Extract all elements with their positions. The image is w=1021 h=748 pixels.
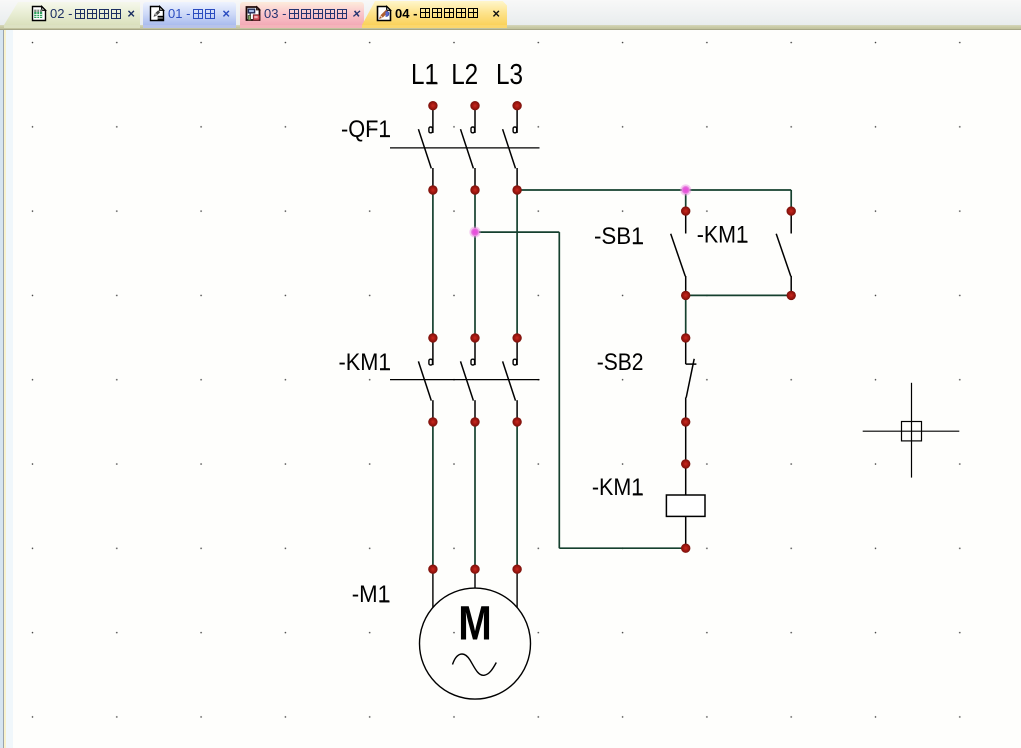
SB1 blade xyxy=(671,234,686,276)
wire W: KM1 to M1 xyxy=(516,422,518,569)
M1 lead U xyxy=(432,569,434,607)
tab: 03 - wiring block diagram xyxy=(240,2,364,25)
QF1 pole 3 blade xyxy=(503,129,516,168)
KM1 pole 3 top lead xyxy=(516,338,518,365)
junction dot: SB1 pin 2 xyxy=(681,291,690,300)
junction dot: QF1 L1 out xyxy=(428,185,437,194)
svg-text:-KM1: -KM1 xyxy=(697,222,748,249)
svg-text:-SB2: -SB2 xyxy=(597,349,644,376)
tab: 04 - electrical schematic (active) xyxy=(362,1,507,25)
svg-text:L3: L3 xyxy=(496,59,523,91)
wire return wire horizontal xyxy=(559,547,685,549)
M1 lead V xyxy=(474,569,476,588)
KM1 pole 1 top lead xyxy=(432,338,434,365)
wire L1: QF1 to KM1 xyxy=(432,190,434,338)
junction dot: QF1 L3 in xyxy=(512,101,521,110)
hot-grip node: L2 return tap xyxy=(469,227,480,238)
junction dot: QF1 L2 in xyxy=(470,101,479,110)
svg-text:L2: L2 xyxy=(451,59,478,91)
junction dot: KM1 L2 in xyxy=(470,333,479,342)
junction dot: KM1 aux pin 1 xyxy=(787,206,796,215)
KM1 coil body xyxy=(666,495,705,516)
QF1 pole 3 bottom lead xyxy=(516,168,518,190)
KM1 pole 3 blade xyxy=(503,361,516,400)
hot-grip node: control feed tap xyxy=(680,184,691,195)
wire SB1/KM1-aux bottom link xyxy=(686,294,792,296)
KM1 pole 1 bottom lead xyxy=(432,400,434,422)
SB2 top lead xyxy=(685,338,687,364)
junction dot: QF1 L2 out xyxy=(470,185,479,194)
SB2 actuator bar xyxy=(686,363,697,365)
KM1 aux top lead xyxy=(790,211,792,233)
M1 lead W xyxy=(516,569,518,607)
svg-text:-QF1: -QF1 xyxy=(341,116,391,143)
wire neutral tap horizontal xyxy=(475,231,559,233)
wire return wire vertical xyxy=(558,232,560,548)
KM1 pole 3 bottom lead xyxy=(516,400,518,422)
QF1 pole 2 top lead xyxy=(474,106,476,133)
junction dot: M1 V xyxy=(470,565,479,574)
QF1 pole 2 blade xyxy=(461,129,474,168)
KM1 aux bottom lead xyxy=(790,276,792,295)
KM1 pole 2 bottom lead xyxy=(474,400,476,422)
tab bar xyxy=(0,0,1021,25)
junction dot: M1 U xyxy=(428,565,437,574)
wire feed drop to SB1 xyxy=(685,190,687,211)
junction dot: KM1 L1 in xyxy=(428,333,437,342)
wire feed drop to KM1 aux xyxy=(790,190,792,211)
KM1 pole 3 fixed-contact hook xyxy=(513,359,517,365)
M1 AC sine xyxy=(453,654,497,675)
junction dot: QF1 L1 in xyxy=(428,101,437,110)
KM1 pole 2 fixed-contact hook xyxy=(471,359,475,365)
junction dot: M1 W xyxy=(512,565,521,574)
junction dot: SB1 pin 1 xyxy=(681,206,690,215)
QF1 pole 2 fixed-contact hook xyxy=(471,127,475,133)
QF1 pole 3 top lead xyxy=(516,106,518,133)
SB1 bottom lead xyxy=(685,276,687,295)
junction dot: KM1 aux pin 2 xyxy=(787,291,796,300)
QF1 pole 3 fixed-contact hook xyxy=(513,127,517,133)
wire control feed horizontal xyxy=(517,189,791,191)
junction dot: KM1 L3 out xyxy=(512,417,521,426)
tab: 02 - sheet list xyxy=(4,2,140,25)
svg-text:-SB1: -SB1 xyxy=(594,223,644,250)
tab: 01 - home xyxy=(143,2,236,25)
junction dot: SB2 pin 2 xyxy=(681,417,690,426)
svg-text:-KM1: -KM1 xyxy=(592,474,643,501)
crosshair cursor xyxy=(863,383,960,478)
wire L2: QF1 to KM1 xyxy=(474,190,476,338)
QF1 pole 2 bottom lead xyxy=(474,168,476,190)
svg-text:M: M xyxy=(458,598,492,651)
junction dot: KM1 L3 in xyxy=(512,333,521,342)
wire SB2 to coil node xyxy=(685,422,687,464)
wire V: KM1 to M1 xyxy=(474,422,476,569)
KM1 coil top lead xyxy=(685,464,687,495)
QF1 pole 1 bottom lead xyxy=(432,168,434,190)
M1 body circle xyxy=(420,588,531,699)
wire L3: QF1 to KM1 xyxy=(516,190,518,338)
SB1 top lead xyxy=(685,211,687,233)
SB2 bottom lead xyxy=(685,398,687,422)
junction dot: KM1 L2 out xyxy=(470,417,479,426)
svg-text:-KM1: -KM1 xyxy=(339,349,391,376)
KM1 aux blade xyxy=(776,234,791,276)
KM1 coil bottom lead xyxy=(685,516,687,548)
QF1 pole 1 top lead xyxy=(432,106,434,133)
SB2 blade xyxy=(686,359,694,398)
svg-text:L1: L1 xyxy=(411,59,438,91)
khaki separator band xyxy=(0,25,1021,30)
KM1 linkage bar xyxy=(390,379,540,381)
KM1 pole 2 blade xyxy=(461,361,474,400)
wire SB1 to SB2 xyxy=(685,295,687,338)
svg-text:-M1: -M1 xyxy=(352,581,390,608)
KM1 pole 2 top lead xyxy=(474,338,476,365)
wire U: KM1 to M1 xyxy=(432,422,434,569)
junction dot: SB2 pin 1 xyxy=(681,333,690,342)
QF1 pole 1 blade xyxy=(418,129,431,168)
KM1 pole 1 fixed-contact hook xyxy=(429,359,433,365)
junction dot: coil node A2 xyxy=(681,544,690,553)
KM1 pole 1 blade xyxy=(418,361,431,400)
junction dot: KM1 L1 out xyxy=(428,417,437,426)
QF1 pole 1 fixed-contact hook xyxy=(429,127,433,133)
QF1 linkage bar xyxy=(390,147,540,149)
junction dot: coil node A1 xyxy=(681,459,690,468)
junction dot: QF1 L3 out xyxy=(512,185,521,194)
